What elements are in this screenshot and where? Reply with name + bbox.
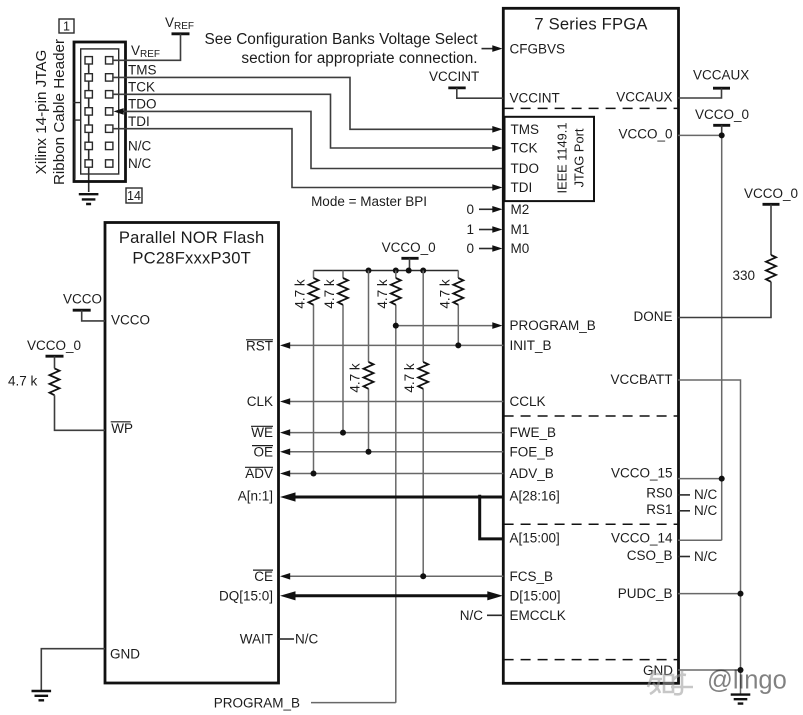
node ADV_B junction (311, 471, 317, 477)
svg-text:M2: M2 (511, 202, 530, 217)
svg-text:TCK: TCK (511, 141, 538, 156)
svg-text:14: 14 (127, 189, 141, 203)
svg-text:N/C: N/C (694, 549, 718, 564)
svg-text:FCS_B: FCS_B (510, 569, 554, 584)
dashed separator 1 (504, 107, 678, 109)
svg-text:RS0: RS0 (646, 486, 672, 501)
resistor R6 4.7k FCS_B pullup (422, 271, 424, 577)
wire VCCO to flash (82, 310, 105, 321)
svg-text:WAIT: WAIT (240, 631, 273, 646)
svg-text:0: 0 (466, 241, 474, 256)
svg-text:VCCBATT: VCCBATT (610, 372, 672, 387)
svg-text:M1: M1 (511, 222, 530, 237)
node FCS_B junction (420, 573, 426, 579)
wire INIT_B to RST (289, 344, 503, 346)
node PROGRAM_B junction (393, 323, 399, 329)
svg-text:PROGRAM_B: PROGRAM_B (510, 318, 596, 333)
pin 9 square (85, 125, 92, 132)
svg-text:DONE: DONE (633, 309, 672, 324)
resistor R3 4.7k PROGRAM_B pullup (395, 271, 397, 703)
wire DONE (678, 282, 771, 318)
wire ADV_B to ADV (289, 473, 503, 475)
svg-text:OE: OE (253, 444, 273, 459)
connector J1 key notch (73, 103, 81, 179)
svg-text:4.7 k: 4.7 k (375, 279, 390, 309)
node rail VCCO_0 tap (406, 268, 412, 274)
wire TDO FPGA to header (123, 111, 504, 168)
svg-text:A[28:16]: A[28:16] (510, 489, 560, 504)
svg-text:VCCAUX: VCCAUX (616, 89, 672, 104)
pin 12 square N/C (106, 142, 113, 149)
svg-text:7 Series FPGA: 7 Series FPGA (534, 15, 648, 34)
flash box U2 (105, 223, 279, 684)
pin 6 square TCK (106, 91, 113, 98)
wire note arrow to CFGBVS (482, 48, 494, 50)
svg-text:Parallel NOR Flash: Parallel NOR Flash (119, 228, 265, 247)
svg-text:VCCO_0: VCCO_0 (744, 186, 798, 201)
wire VCCO_15 (678, 478, 722, 480)
node FOE_B junction (366, 449, 372, 455)
connector J1 inner body (81, 49, 119, 174)
wire TMS header to FPGA (113, 77, 494, 129)
ground at header (79, 194, 99, 204)
connector J1 ground bus through pins (88, 60, 90, 174)
svg-text:VCCO_0: VCCO_0 (618, 127, 672, 142)
dashed separator 2 (504, 415, 678, 417)
svg-text:N/C: N/C (460, 608, 484, 623)
node VCCO_0 column junction (719, 132, 725, 138)
pin 4 square TMS (106, 74, 113, 81)
svg-text:VCCO_14: VCCO_14 (611, 531, 673, 546)
wire FOE_B to OE (289, 451, 503, 453)
svg-text:TDO: TDO (128, 97, 157, 112)
svg-text:CFGBVS: CFGBVS (510, 41, 566, 56)
pin 3 square (85, 74, 92, 81)
node rail R3 tap (393, 268, 399, 274)
wire VCCO_14 (678, 539, 722, 541)
node rail R5 tap (366, 268, 372, 274)
svg-text:section for appropriate connec: section for appropriate connection. (241, 50, 477, 67)
svg-text:DQ[15:0]: DQ[15:0] (219, 588, 273, 603)
resistor R7 4.7k WP pullup (54, 356, 56, 368)
svg-text:N/C: N/C (295, 631, 319, 646)
bus branch to A[15:00] (480, 495, 504, 539)
ground at fpga right (731, 695, 751, 704)
svg-text:TDI: TDI (511, 180, 533, 195)
svg-text:A[15:00]: A[15:00] (510, 531, 560, 546)
svg-text:GND: GND (110, 646, 140, 661)
watermark zhihu (648, 667, 787, 695)
svg-text:N/C: N/C (694, 503, 718, 518)
svg-text:N/C: N/C (694, 487, 718, 502)
svg-text:VCCINT: VCCINT (429, 69, 479, 84)
ground at flash (32, 691, 52, 700)
svg-text:Xilinx 14-pin JTAG: Xilinx 14-pin JTAG (33, 50, 50, 175)
node PUDC_B junction (738, 591, 744, 597)
svg-text:IEEE 1149.1: IEEE 1149.1 (555, 123, 570, 194)
node INIT_B junction (455, 342, 461, 348)
wire VCCO_0 pin to column (678, 134, 722, 136)
wire FWE_B to WE (289, 432, 503, 434)
wire R7 to WP (55, 395, 106, 430)
wire VCCBATT to ground column (678, 380, 741, 695)
svg-text:Ribbon Cable Header: Ribbon Cable Header (51, 39, 68, 185)
wire VREF pin2 to VREF power (113, 34, 181, 61)
svg-text:JTAG Port: JTAG Port (572, 128, 587, 187)
node GND junction (738, 667, 744, 673)
wire pullup rail (314, 270, 459, 272)
svg-text:0: 0 (466, 202, 474, 217)
svg-text:VCCO: VCCO (63, 292, 102, 307)
svg-text:CCLK: CCLK (510, 394, 546, 409)
wire PUDC_B to ground column (678, 593, 741, 595)
resistor R1 4.7k ADV pullup (313, 271, 315, 474)
wire GND to ground (41, 649, 105, 691)
svg-text:TCK: TCK (128, 80, 155, 95)
JTAG port box (505, 117, 595, 201)
svg-text:4.7 k: 4.7 k (322, 279, 337, 309)
svg-text:RS1: RS1 (646, 502, 672, 517)
svg-text:D[15:00]: D[15:00] (510, 588, 561, 603)
node rail R6 tap (420, 268, 426, 274)
svg-text:ADV: ADV (245, 466, 273, 481)
node FWE_B junction (340, 430, 346, 436)
pin 14 square N/C (106, 160, 113, 167)
svg-text:330: 330 (732, 268, 755, 283)
svg-text:N/C: N/C (128, 139, 152, 154)
pin 1 square (85, 57, 92, 64)
resistor R4 4.7k INIT_B pullup (457, 271, 459, 346)
svg-text:PUDC_B: PUDC_B (618, 586, 673, 601)
pin 5 square (85, 91, 92, 98)
svg-text:VCCINT: VCCINT (510, 90, 560, 105)
svg-text:CSO_B: CSO_B (627, 548, 673, 563)
wire TCK header to FPGA (113, 94, 494, 148)
svg-text:4.7 k: 4.7 k (402, 363, 417, 393)
svg-text:PC28FxxxP30T: PC28FxxxP30T (132, 249, 251, 268)
dashed separator 4 (504, 659, 678, 661)
node VCCO_15 junction (719, 476, 725, 482)
svg-text:VCCO: VCCO (111, 313, 150, 328)
svg-text:VCCO_0: VCCO_0 (382, 240, 436, 255)
resistor R2 4.7k FWE pullup (342, 271, 344, 433)
svg-text:WE: WE (251, 425, 273, 440)
pin 2 square VREF (106, 57, 113, 64)
wire PROGRAM_B net (396, 325, 494, 327)
svg-text:N/C: N/C (128, 156, 152, 171)
svg-text:INIT_B: INIT_B (510, 338, 552, 353)
svg-text:FOE_B: FOE_B (510, 444, 554, 459)
svg-text:4.7 k: 4.7 k (293, 279, 308, 309)
wire TDI header to FPGA (113, 129, 494, 188)
svg-text:PROGRAM_B: PROGRAM_B (214, 695, 300, 710)
svg-text:EMCCLK: EMCCLK (510, 608, 566, 623)
pin 11 square (85, 142, 92, 149)
svg-text:TMS: TMS (128, 63, 157, 78)
pin 13 square (85, 160, 92, 167)
svg-text:Mode = Master BPI: Mode = Master BPI (311, 194, 427, 209)
bus A[n:1] to A[28:16] (294, 496, 503, 499)
resistor R5 4.7k FOE pullup (368, 271, 370, 452)
pin 1 number box (59, 19, 74, 33)
svg-text:VCCO_15: VCCO_15 (611, 466, 673, 481)
svg-text:4.7 k: 4.7 k (348, 363, 363, 393)
svg-text:A[n:1]: A[n:1] (238, 489, 273, 504)
svg-text:4.7 k: 4.7 k (8, 373, 38, 388)
svg-text:1: 1 (63, 20, 70, 34)
svg-text:1: 1 (466, 222, 474, 237)
svg-text:@lingo: @lingo (707, 667, 787, 695)
svg-text:RST: RST (246, 339, 273, 354)
pin 7 square (85, 108, 92, 115)
wire VCCAUX (678, 88, 722, 98)
svg-text:VCCO_0: VCCO_0 (27, 338, 81, 353)
pin 14 number box (126, 188, 142, 203)
svg-text:TDI: TDI (128, 114, 150, 129)
wire VCCO column down (721, 135, 723, 540)
bus D[15:00] to DQ[15:0] (294, 594, 489, 597)
svg-text:TMS: TMS (511, 122, 540, 137)
svg-text:4.7 k: 4.7 k (437, 279, 452, 309)
connector J1 Xilinx 14-pin JTAG ribbon cable header ground bus (88, 60, 90, 192)
connector J1 outer body (74, 42, 126, 182)
wire CCLK to CLK (289, 401, 503, 403)
wire VCCINT (457, 88, 504, 98)
svg-text:CLK: CLK (247, 394, 273, 409)
dashed separator 3 (504, 523, 678, 525)
svg-text:M0: M0 (511, 241, 530, 256)
svg-text:TDO: TDO (511, 161, 540, 176)
svg-text:See Configuration Banks Voltag: See Configuration Banks Voltage Select (205, 31, 479, 48)
svg-text:ADV_B: ADV_B (510, 466, 554, 481)
FPGA box U1 (503, 8, 678, 683)
svg-text:FWE_B: FWE_B (510, 425, 557, 440)
svg-text:WP: WP (111, 421, 133, 436)
wire GND fpga to ground (678, 669, 741, 671)
wire VCCO_0 stem (721, 125, 723, 135)
wire FCS_B to CE (289, 575, 503, 577)
svg-text:CE: CE (254, 569, 273, 584)
svg-text:VCCO_0: VCCO_0 (695, 107, 749, 122)
svg-text:VCCAUX: VCCAUX (693, 68, 749, 83)
pin 8 square TDO (106, 108, 113, 115)
pin 10 square TDI (106, 125, 113, 132)
resistor R8 330 DONE pullup (770, 204, 772, 255)
